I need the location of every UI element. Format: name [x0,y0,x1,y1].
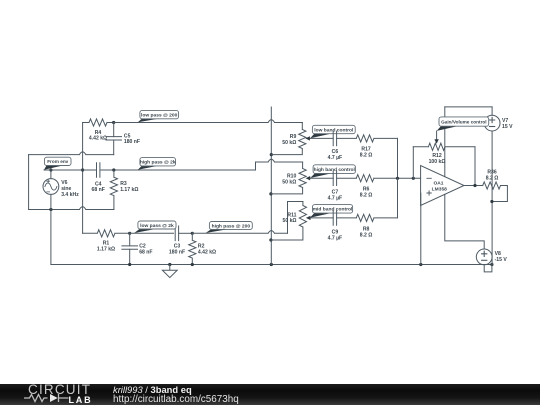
node R36 loop to supply vertical [490,200,493,203]
flag low pass @ 200 [138,110,179,122]
resistor R36 [483,182,508,202]
svg-text:Gain/Volume control: Gain/Volume control [441,119,487,124]
svg-text:R950 kΩ: R950 kΩ [282,134,296,146]
footer texts [113,384,192,395]
wire From env node to C4 [44,169,96,171]
voltage source V8 [476,249,492,265]
svg-text:R88.2 Ω: R88.2 Ω [360,227,373,239]
capacitor C4 [97,163,100,178]
svg-text:C5180 nF: C5180 nF [124,133,140,145]
svg-text:V6sine3.4 kHz: V6sine3.4 kHz [61,180,79,198]
svg-text:OA1: OA1 [433,180,443,186]
wire R8 up to summing node [397,178,399,218]
svg-text:C64.7 µF: C64.7 µF [328,149,343,161]
node ground stub [168,263,171,266]
potentiometer R9 [271,123,306,155]
flag low band control [310,125,355,138]
resistor R3 [110,170,117,210]
node C3-R2 junction [191,232,194,235]
wire C5 bottom return left (hop) [29,152,114,155]
svg-text:low pass @ 2k: low pass @ 2k [140,223,174,229]
wire C9 to R8 [337,217,357,219]
wire vertical bus [270,107,272,265]
node V8/V7 vertical to rail [490,263,493,266]
flag high band control [310,165,355,178]
svg-text:R1050 kΩ: R1050 kΩ [282,174,296,186]
resistor R17 [356,135,397,142]
node op-amp + to rail [419,263,422,266]
voltage source V6 sine [50,170,52,265]
node R4-C5 junction [112,121,115,124]
ground [162,265,177,278]
potentiometer R12 [413,143,475,150]
node R1-C2 junction [128,232,131,235]
wire V- supply to V8 [445,194,484,249]
wire input node vertical (R4 left / From env) [82,123,84,171]
op-amp OA1 LM358 [421,166,464,206]
svg-text:R178.2 Ω: R178.2 Ω [360,147,373,159]
flag high pass @ 200 [206,222,253,234]
wire high pass @ 2k run [101,169,256,171]
wire op-amp output [464,185,483,187]
potentiometer R11 [271,202,307,241]
resistor R2 [189,233,196,264]
wire V7 top run [445,106,492,108]
wire C6 to R17 [337,137,357,139]
svg-text:LM358: LM358 [432,187,448,193]
svg-text:R11.17 kΩ: R11.17 kΩ [97,241,115,253]
node R10 bottom to bus [269,192,272,195]
resistor R4 [83,119,114,126]
svg-text:R368.2 Ω: R368.2 Ω [486,170,499,182]
node R12 left to inverting input [412,177,415,180]
wire left return vertical [28,155,30,210]
wire ground rail [51,264,492,266]
node R12 right to output [473,184,476,187]
flag From env [44,157,71,170]
capacitor C3 [175,226,178,241]
wire input node vertical to R1 [82,170,84,233]
footer bar [0,384,540,405]
flag Gain/Volume control [437,117,489,131]
node bus to rail [270,263,273,266]
svg-text:high pass @ 2k: high pass @ 2k [140,160,176,166]
wire C3 to R2 [179,232,193,234]
wire non-inverting input to rail [420,193,422,264]
resistor R1 [83,230,130,237]
potentiometer R10 [271,162,306,194]
resistor R8 [356,214,397,221]
node R9 bottom to bus [270,153,273,156]
wire high band row to C7 [310,177,333,179]
capacitor C9 [333,211,336,226]
svg-text:R12100 kΩ: R12100 kΩ [429,153,446,165]
svg-text:C268 nF: C268 nF [139,244,152,256]
svg-text:C468 nF: C468 nF [92,181,105,193]
wire mid band jog up to R11 [288,202,303,234]
node C2 to rail [128,263,131,266]
capacitor C5 [113,123,115,155]
flag high pass @ 2k [138,158,176,170]
svg-text:R24.42 kΩ: R24.42 kΩ [198,244,216,256]
svg-text:V8-15 V: V8-15 V [495,251,508,263]
svg-text:From env: From env [47,159,68,164]
wire R12 left to inverting node [412,147,414,179]
svg-text:high band control: high band control [314,167,356,173]
svg-text:R1150 kΩ: R1150 kΩ [283,212,297,224]
svg-text:R44.42 kΩ: R44.42 kΩ [89,130,107,142]
wire R1 junction to C3 [130,232,174,234]
voltage source V7 [491,107,493,265]
wire high pass @ 200 run (hop over bus) [192,231,287,234]
svg-text:C3180 nF: C3180 nF [169,244,185,256]
svg-text:C94.7 µF: C94.7 µF [328,229,343,241]
wire high band jog to R10 (hop over bus) [256,159,303,170]
node R11 bottom to bus [269,238,272,241]
wire ground return to R3 bottom (hop) [29,207,114,210]
resistor R6 [356,175,420,182]
wire R17 down to summing node [397,138,399,178]
svg-text:low band control: low band control [314,127,354,133]
node summing junction R17/R8 [396,177,399,180]
node C4-R3 junction [112,168,115,171]
wire low band row to C6 [310,137,333,139]
svg-text:R31.17 kΩ: R31.17 kΩ [120,181,138,193]
svg-text:V715 V: V715 V [502,118,513,130]
flag low pass @ 2k [134,221,176,233]
svg-text:C74.7 µF: C74.7 µF [328,189,343,201]
wire mid band row to C9 [310,217,333,219]
node R2 to rail [191,263,194,266]
svg-text:high pass @ 200: high pass @ 200 [212,223,251,229]
wire low pass @ 200 to R9 (hop over bus) [114,120,303,123]
svg-text:low pass @ 200: low pass @ 200 [141,112,178,118]
node V6 top [49,168,52,171]
node V6 stem x ground return [49,208,52,211]
capacitor C7 [333,171,336,186]
wire R12 right to output [474,147,476,186]
wire C7 to R6 [337,177,357,179]
CircuitLab logo [28,382,91,397]
svg-text:R68.2 Ω: R68.2 Ω [360,187,373,199]
wire V+ supply from V7 to op-amp (crosses R12 lead) [444,107,446,177]
wire V8 bottom detour [484,265,492,272]
capacitor C2 [129,233,131,264]
node From-env junction at input vertical [81,168,84,171]
capacitor C6 [333,131,336,146]
flag mid band control [310,205,353,218]
